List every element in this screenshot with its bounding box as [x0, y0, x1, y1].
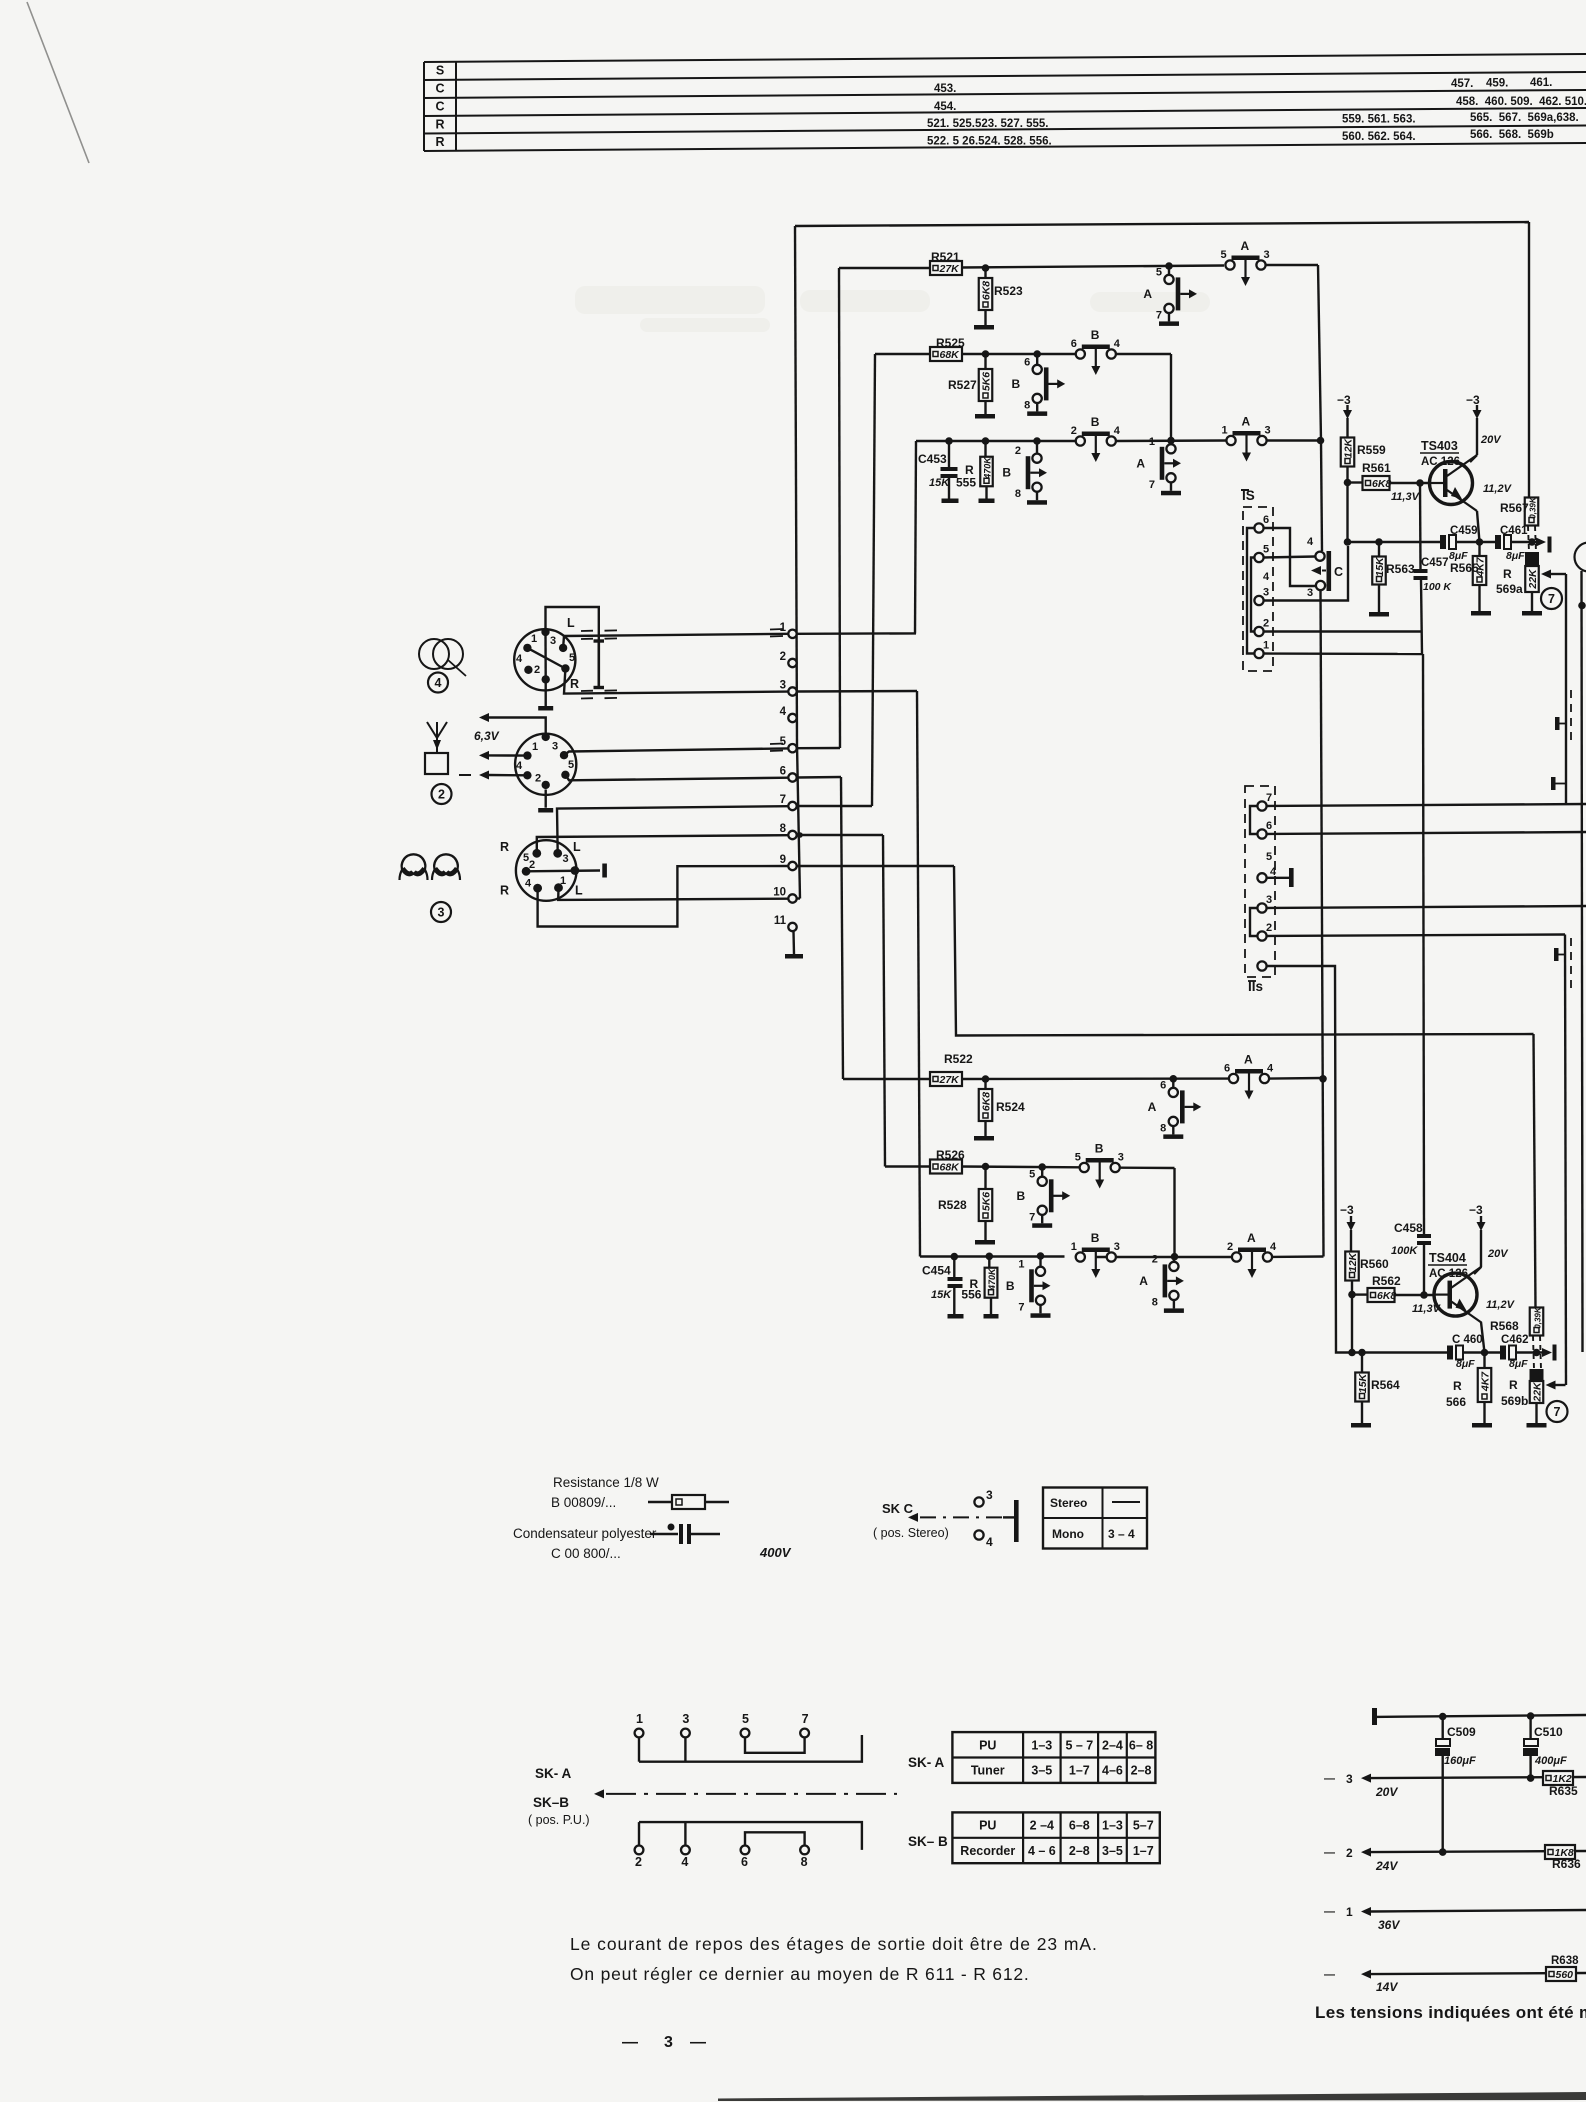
resistor R566: [1446, 1353, 1492, 1428]
svg-text:−3: −3: [1469, 1203, 1483, 1217]
table row R numbers 522: [927, 129, 1554, 148]
svg-text:6K8: 6K8: [1372, 478, 1391, 490]
svg-text:8: 8: [801, 1855, 808, 1869]
capacitor C462: [1500, 1334, 1543, 1370]
DIN4 shield bar: [594, 639, 605, 689]
wire IS pin2 to C457 column: [1264, 630, 1422, 632]
resistor R562: [1352, 1274, 1442, 1315]
svg-text:5: 5: [742, 1712, 749, 1726]
svg-text:−3: −3: [1340, 1203, 1354, 1217]
svg-text:3: 3: [682, 1712, 689, 1726]
svg-text:R: R: [500, 884, 509, 898]
svg-text:6K8: 6K8: [980, 281, 992, 300]
svg-text:SK–B: SK–B: [533, 1795, 569, 1810]
svg-text:PU: PU: [979, 1819, 996, 1833]
svg-text:PU: PU: [979, 1738, 996, 1752]
power rail top wire: [1372, 1708, 1586, 1725]
svg-text:6: 6: [1071, 338, 1077, 350]
wire vertical A3 down to C switch: [1318, 265, 1322, 551]
switch A upper-right (contacts 5/3): [1221, 239, 1270, 286]
svg-text:—: —: [1324, 1969, 1335, 1981]
svg-text:5: 5: [1075, 1152, 1081, 1164]
svg-text:6: 6: [780, 766, 786, 778]
svg-text:3 – 4: 3 – 4: [1108, 1527, 1135, 1541]
svg-text:—: —: [622, 2034, 638, 2051]
wire R522 row: [843, 1078, 1323, 1079]
svg-text:6: 6: [1160, 1079, 1166, 1091]
svg-text:6: 6: [1024, 356, 1030, 368]
shield dashes terminal 1: [770, 629, 783, 637]
wire wiper feed vertical upper: [1565, 574, 1567, 805]
wire R526 row: [885, 1167, 1175, 1169]
rail -2 24V: [1324, 1846, 1586, 1873]
resistor R556: [961, 1256, 998, 1318]
switch B lower vertical (contacts 5/7): [1017, 1163, 1071, 1228]
node junction wiper/R522 row: [1319, 1075, 1327, 1083]
svg-text:−3: −3: [1466, 393, 1480, 407]
svg-text:1: 1: [1018, 1258, 1024, 1270]
svg-text:20V: 20V: [1480, 434, 1502, 446]
table row C numbers 453: [934, 77, 1552, 95]
svg-text:521. 525.523. 527. 555.: 521. 525.523. 527. 555.: [927, 118, 1049, 130]
svg-text:559. 561. 563.: 559. 561. 563.: [1342, 114, 1416, 126]
svg-text:C: C: [435, 82, 444, 96]
node junction emitter/C460: [1481, 1349, 1489, 1357]
wire node 1352 line: [1348, 1349, 1447, 1357]
wire wiper feed vertical lower: [1565, 935, 1566, 1386]
wire vertical from R521 row to terminal 5: [839, 268, 840, 748]
svg-text:560. 562. 564.: 560. 562. 564.: [1342, 131, 1416, 143]
svg-text:R527: R527: [948, 378, 977, 392]
switch A lower-left vertical (contacts 6/8): [1148, 1075, 1202, 1139]
svg-text:7: 7: [802, 1712, 809, 1726]
svg-text:8: 8: [1160, 1122, 1166, 1134]
svg-text:6K8: 6K8: [1377, 1290, 1396, 1302]
SK-A contact diagram: [635, 1712, 862, 1762]
svg-text:2: 2: [780, 651, 786, 663]
svg-text:6: 6: [1266, 820, 1272, 832]
svg-text:L: L: [575, 884, 583, 898]
DIN3 pin3 wire to terminal7: [557, 806, 788, 853]
svg-text:R524: R524: [996, 1100, 1025, 1114]
svg-text:2: 2: [438, 788, 445, 802]
svg-text:461.: 461.: [1530, 77, 1552, 89]
svg-text:2: 2: [1227, 1241, 1233, 1253]
svg-text:4: 4: [516, 760, 523, 772]
svg-text:( pos. Stereo): ( pos. Stereo): [873, 1526, 949, 1540]
svg-text:3: 3: [1346, 1772, 1353, 1786]
resistor R559: [1341, 437, 1386, 466]
labels SK-A SK-B pos PU: [528, 1766, 590, 1827]
scan crease top-left: [27, 2, 89, 163]
headphones icon: [400, 854, 461, 880]
switch A row3 horizontal (contacts 1/3): [1222, 415, 1271, 462]
svg-text:2: 2: [529, 859, 535, 871]
svg-text:A: A: [1247, 1231, 1256, 1245]
svg-text:—: —: [1324, 1847, 1335, 1859]
node junction C509: [1439, 1713, 1447, 1721]
svg-text:27K: 27K: [939, 1074, 961, 1086]
svg-text:R: R: [1503, 567, 1512, 581]
rail - 14V: [1324, 1969, 1586, 1994]
wire vertical terminal7 to R525: [872, 354, 875, 806]
node junction 1352/R564: [1358, 1349, 1366, 1357]
svg-text:7: 7: [1156, 309, 1162, 321]
wire top border: [795, 222, 1529, 226]
svg-text:1: 1: [1263, 640, 1269, 652]
legend 400V: [759, 1545, 792, 1560]
svg-text:3: 3: [1114, 1241, 1120, 1253]
resistor R523: [974, 268, 1023, 330]
rail -1 36V: [1324, 1905, 1586, 1932]
table row labels S C C R R: [435, 64, 444, 149]
wire node 542 line: [1344, 538, 1440, 546]
svg-text:20V: 20V: [1487, 1248, 1509, 1260]
svg-text:B: B: [1002, 466, 1011, 480]
svg-text:7: 7: [780, 794, 786, 806]
resistor R635: [1543, 1771, 1578, 1798]
svg-text:454.: 454.: [934, 101, 956, 113]
wire terminal 9 row: [797, 865, 954, 867]
svg-text:R568: R568: [1490, 1319, 1519, 1333]
switch IS dashed box with contacts: [1241, 488, 1273, 671]
power -3 right upper 20V: [1466, 393, 1502, 462]
resistor R526: [930, 1148, 965, 1174]
svg-text:R638: R638: [1551, 1955, 1579, 1967]
svg-text:5: 5: [1221, 249, 1227, 261]
svg-text:5–7: 5–7: [1133, 1819, 1154, 1833]
DIN4 shield dashes: [581, 630, 617, 698]
svg-text:R: R: [1509, 1378, 1518, 1392]
capacitor C459: [1440, 525, 1495, 562]
switch B row3 lower vertical (contacts 1/7): [1006, 1252, 1051, 1318]
node junction 1352/pot column: [1533, 1349, 1541, 1357]
switch B mid-right (contacts 6/4): [1071, 328, 1121, 375]
svg-text:A: A: [1136, 456, 1145, 470]
svg-text:R636: R636: [1552, 1857, 1581, 1871]
svg-text:8: 8: [1024, 399, 1030, 411]
svg-text:6: 6: [1263, 514, 1269, 526]
svg-text:24V: 24V: [1375, 1859, 1398, 1873]
svg-text:7: 7: [1548, 592, 1555, 606]
svg-text:22K: 22K: [1531, 1381, 1543, 1403]
capacitor C510: [1523, 1716, 1567, 1778]
svg-text:6– 8: 6– 8: [1129, 1738, 1153, 1752]
svg-text:2–4: 2–4: [1102, 1738, 1123, 1752]
svg-text:12K: 12K: [1347, 1251, 1359, 1272]
wire terminal 8 row: [797, 832, 883, 838]
svg-text:459.: 459.: [1486, 78, 1508, 90]
wire R559 to node: [1346, 466, 1348, 542]
svg-text:—: —: [1324, 1906, 1335, 1918]
svg-text:470K: 470K: [987, 1267, 997, 1291]
svg-text:R560: R560: [1360, 1257, 1389, 1271]
svg-text:A: A: [1244, 1053, 1253, 1067]
connector circled 7 upper: [1541, 588, 1562, 609]
node junction R521/R523: [982, 264, 990, 272]
svg-text:470K: 470K: [982, 456, 992, 480]
svg-text:9: 9: [780, 854, 786, 866]
switch B lower horizontal (contacts 5/3): [1075, 1142, 1124, 1189]
svg-text:100 K: 100 K: [1423, 581, 1452, 593]
node junction R522/R524: [982, 1075, 990, 1083]
legend stereo-mono table: [1043, 1488, 1147, 1549]
svg-text:400V: 400V: [759, 1545, 792, 1560]
svg-text:8: 8: [1152, 1296, 1158, 1308]
page number 3: [622, 2034, 706, 2051]
svg-text:5: 5: [1263, 544, 1269, 556]
svg-text:R561: R561: [1362, 461, 1391, 475]
wire IS pin3 to node: [1264, 546, 1348, 601]
svg-text:566. 568. 569b: 566. 568. 569b: [1470, 129, 1554, 141]
svg-text:5: 5: [569, 652, 575, 664]
svg-text:5: 5: [1156, 266, 1162, 278]
svg-text:3: 3: [1307, 587, 1313, 599]
node junction R525/R527: [982, 350, 990, 358]
resistor R565: [1450, 542, 1491, 616]
DIN4 centre line to ground: [538, 632, 553, 711]
svg-text:1: 1: [532, 741, 538, 753]
svg-text:SK- A: SK- A: [535, 1766, 571, 1781]
power -3 right lower 20V: [1469, 1203, 1509, 1274]
svg-text:3: 3: [1265, 425, 1271, 437]
svg-text:R: R: [435, 135, 444, 149]
resistor R527: [948, 354, 995, 419]
scan ghost smudges: [575, 286, 1210, 332]
svg-text:6,3V: 6,3V: [474, 729, 500, 743]
svg-text:10: 10: [773, 887, 786, 899]
svg-text:3: 3: [438, 906, 445, 920]
svg-text:4: 4: [1263, 571, 1270, 583]
svg-text:556: 556: [961, 1288, 981, 1302]
svg-text:1: 1: [560, 875, 566, 887]
resistor R522: [930, 1052, 973, 1086]
svg-text:R559: R559: [1357, 443, 1386, 457]
switch C (contacts 4/3): [1307, 536, 1343, 599]
node junction C454: [951, 1253, 959, 1261]
svg-text:555: 555: [956, 476, 976, 490]
svg-text:453.: 453.: [934, 83, 956, 95]
svg-text:A: A: [1148, 1100, 1157, 1114]
svg-text:1–3: 1–3: [1031, 1738, 1052, 1752]
label SK-B table: [908, 1834, 948, 1849]
switch B mid-left (contacts 6/8): [1012, 350, 1066, 416]
svg-text:5 – 7: 5 – 7: [1065, 1738, 1093, 1752]
svg-text:Les tensions indiquées ont été: Les tensions indiquées ont été m: [1315, 2003, 1586, 2022]
potentiometer R569a: [1496, 552, 1542, 616]
svg-text:4: 4: [780, 706, 787, 718]
wire IS pin6 to C contact3: [1264, 528, 1316, 586]
svg-text:160μF: 160μF: [1444, 1755, 1476, 1767]
wire IIs bottom contact to lower node: [1267, 966, 1352, 1353]
switch A upper-left (contacts 5/7): [1143, 262, 1197, 326]
svg-text:1–7: 1–7: [1133, 1844, 1154, 1858]
svg-text:15K: 15K: [1357, 1372, 1369, 1393]
svg-text:4: 4: [525, 878, 532, 890]
wire IIs pin2 row: [1267, 935, 1565, 937]
wire emitter to node 542: [1477, 511, 1480, 542]
transistor TS404 (AC126): [1428, 1251, 1516, 1323]
svg-text:565. 567. 569a,638.: 565. 567. 569a,638.: [1470, 112, 1579, 124]
svg-text:1: 1: [780, 622, 787, 634]
wire R521 row: [839, 265, 1318, 268]
svg-text:R565: R565: [1450, 561, 1479, 575]
svg-text:457.: 457.: [1451, 78, 1473, 90]
svg-text:2: 2: [1152, 1253, 1158, 1265]
svg-text:2–8: 2–8: [1131, 1764, 1152, 1778]
DIN2 ground: [538, 790, 553, 813]
svg-text:B: B: [1091, 1231, 1100, 1245]
connector circled 5 edge: [1575, 543, 1586, 572]
svg-text:C 00 800/...: C 00 800/...: [551, 1546, 621, 1561]
svg-text:7: 7: [1029, 1211, 1035, 1223]
resistor R561: [1348, 461, 1430, 503]
connector circled 2 label: [432, 784, 452, 804]
terminal strip contacts 1-11: [773, 622, 796, 931]
svg-text:Resistance 1/8 W: Resistance 1/8 W: [553, 1475, 659, 1490]
svg-text:Mono: Mono: [1052, 1527, 1084, 1541]
svg-text:Le courant de repos des étages: Le courant de repos des étages de sortie…: [570, 1934, 1098, 1954]
SK-B table: [952, 1812, 1159, 1863]
node junction base/C458: [1420, 1291, 1428, 1299]
svg-text:20V: 20V: [1375, 1785, 1398, 1799]
svg-text:569b: 569b: [1501, 1394, 1528, 1408]
wire B row lower corner down: [1173, 1168, 1175, 1257]
svg-text:5: 5: [1029, 1168, 1035, 1180]
svg-text:R635: R635: [1549, 1784, 1578, 1798]
resistor R563: [1369, 542, 1415, 617]
DIN connector 2 body: [515, 733, 576, 795]
connector circled 4 label: [428, 673, 448, 693]
svg-text:R523: R523: [994, 284, 1023, 298]
svg-text:15K: 15K: [929, 477, 950, 489]
wire C3 down to lower switches: [1321, 591, 1324, 1257]
switch IIs dashed box with contacts: [1245, 786, 1277, 994]
svg-text:R567: R567: [1500, 501, 1529, 515]
svg-text:( pos. P.U.): ( pos. P.U.): [528, 1813, 590, 1827]
svg-text:4: 4: [681, 1855, 688, 1869]
svg-text:68K: 68K: [940, 1162, 961, 1174]
DIN2 pin5 wire to terminal6: [565, 775, 788, 781]
DIN3 pin4 wire to terminal9: [538, 866, 788, 927]
svg-text:Recorder: Recorder: [960, 1844, 1015, 1858]
node junction emitter/C459: [1476, 538, 1484, 546]
svg-text:TS404: TS404: [1429, 1251, 1466, 1265]
svg-text:3: 3: [1264, 249, 1270, 261]
svg-text:TS403: TS403: [1421, 439, 1458, 453]
switch A row3 lower vertical (contacts 2/8): [1139, 1253, 1184, 1313]
svg-text:1: 1: [1222, 425, 1228, 437]
svg-text:AC 126: AC 126: [1421, 456, 1460, 468]
svg-text:2: 2: [1015, 445, 1021, 457]
svg-text:4: 4: [1270, 866, 1277, 878]
node junction 542/R563: [1375, 538, 1383, 546]
wire IIs pin3 row: [1267, 906, 1586, 908]
capacitor C457: [1414, 483, 1453, 654]
SK arrow dash-dot: [594, 1789, 897, 1798]
svg-text:4: 4: [1307, 536, 1314, 548]
wire IIs pin7 row: [1267, 804, 1586, 806]
node junction R555: [982, 437, 990, 445]
wire vertical to R568: [1534, 1034, 1536, 1308]
node junction R556: [986, 1253, 994, 1261]
capacitor C460: [1447, 1334, 1500, 1370]
svg-text:400μF: 400μF: [1534, 1755, 1567, 1767]
svg-text:3: 3: [550, 635, 556, 647]
resistor R521: [930, 250, 962, 275]
svg-text:C509: C509: [1447, 1725, 1476, 1739]
svg-text:2–8: 2–8: [1069, 1844, 1090, 1858]
connector circled 7 lower: [1547, 1401, 1568, 1422]
switch A lower-right horizontal (contacts 6/4): [1224, 1053, 1274, 1100]
power -3 left lower: [1340, 1203, 1356, 1252]
svg-text:Condensateur polyester: Condensateur polyester: [513, 1526, 657, 1541]
svg-text:R563: R563: [1386, 562, 1415, 576]
DIN connector 4 body: [514, 616, 579, 691]
svg-text:3–5: 3–5: [1102, 1844, 1123, 1858]
svg-text:5: 5: [1266, 851, 1272, 863]
svg-text:11: 11: [774, 915, 787, 927]
svg-text:7: 7: [1266, 792, 1272, 804]
svg-text:1: 1: [531, 633, 537, 645]
svg-text:2: 2: [534, 664, 540, 676]
svg-text:L: L: [573, 840, 581, 854]
svg-text:6–8: 6–8: [1069, 1819, 1090, 1833]
switch B row3 vertical (contacts 2/8): [1002, 437, 1047, 505]
node junction R559/R561: [1344, 479, 1352, 487]
svg-text:Stereo: Stereo: [1050, 1496, 1087, 1510]
transformer icon: [419, 639, 466, 676]
svg-text:1: 1: [1149, 436, 1155, 448]
svg-text:3: 3: [1118, 1152, 1124, 1164]
wire IIs pin6 row: [1267, 832, 1586, 834]
svg-text:3–5: 3–5: [1031, 1764, 1052, 1778]
svg-text:1–7: 1–7: [1069, 1764, 1090, 1778]
svg-text:22K: 22K: [1527, 568, 1539, 590]
node junction base/C457: [1416, 479, 1424, 487]
svg-text:8: 8: [780, 823, 787, 835]
resistor R525: [930, 336, 965, 361]
svg-text:27K: 27K: [939, 263, 961, 275]
svg-text:A: A: [1242, 415, 1251, 429]
DIN2 top pin arrow: [479, 713, 546, 737]
svg-text:4: 4: [1114, 425, 1121, 437]
DIN2 pin3 wire to terminal5: [564, 748, 788, 755]
svg-text:C462: C462: [1501, 1334, 1529, 1346]
wire vertical terminal3 to C454 row: [917, 691, 920, 1257]
svg-text:B: B: [1091, 328, 1100, 342]
svg-text:A: A: [1139, 1274, 1148, 1288]
scan dark bottom edge: [718, 2092, 1586, 2101]
svg-text:C 460: C 460: [1452, 1334, 1483, 1346]
svg-text:5K6: 5K6: [980, 372, 992, 391]
node junction 542/pot column: [1528, 538, 1536, 546]
shield dashes pot upper: [1528, 526, 1536, 552]
node junction R526/R528: [982, 1163, 990, 1171]
arrow-bar output upper: [1536, 537, 1552, 553]
DIN3 pin5 wire to terminal8: [537, 835, 788, 853]
svg-text:B: B: [1017, 1189, 1026, 1203]
svg-text:560: 560: [1556, 1969, 1574, 1981]
svg-text:8μF: 8μF: [1509, 1358, 1528, 1370]
svg-text:2: 2: [1346, 1846, 1353, 1860]
switch B row3 horizontal (contacts 2/4): [1071, 415, 1121, 462]
svg-text:B 00809/...: B 00809/...: [551, 1495, 616, 1510]
svg-text:C453: C453: [918, 452, 947, 466]
svg-text:11,2V: 11,2V: [1486, 1299, 1516, 1311]
legend resistor symbol: [648, 1495, 729, 1509]
svg-text:8μF: 8μF: [1506, 550, 1525, 562]
